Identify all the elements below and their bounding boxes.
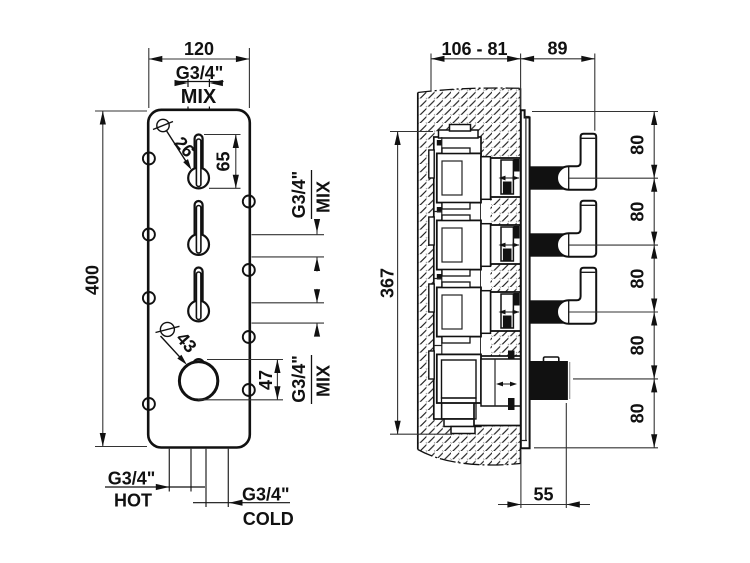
svg-text:G3/4": G3/4" xyxy=(289,355,309,403)
svg-text:120: 120 xyxy=(184,39,214,59)
svg-text:80: 80 xyxy=(628,202,648,222)
svg-text:80: 80 xyxy=(628,269,648,289)
svg-text:G3/4": G3/4" xyxy=(176,63,224,83)
svg-text:367: 367 xyxy=(378,268,398,298)
svg-text:80: 80 xyxy=(628,335,648,355)
svg-text:G3/4": G3/4" xyxy=(108,469,156,489)
svg-text:HOT: HOT xyxy=(114,491,152,511)
svg-text:80: 80 xyxy=(628,403,648,423)
svg-text:400: 400 xyxy=(83,265,103,295)
svg-text:80: 80 xyxy=(628,135,648,155)
svg-text:MIX: MIX xyxy=(181,86,217,108)
svg-text:MIX: MIX xyxy=(314,365,334,397)
svg-text:G3/4": G3/4" xyxy=(242,485,290,505)
svg-text:G3/4": G3/4" xyxy=(289,171,309,219)
svg-text:MIX: MIX xyxy=(314,181,334,213)
svg-text:89: 89 xyxy=(547,39,567,59)
svg-text:106 - 81: 106 - 81 xyxy=(441,39,507,59)
svg-text:COLD: COLD xyxy=(243,509,294,529)
svg-text:65: 65 xyxy=(214,151,234,171)
svg-text:55: 55 xyxy=(533,485,553,505)
svg-text:47: 47 xyxy=(256,370,276,390)
